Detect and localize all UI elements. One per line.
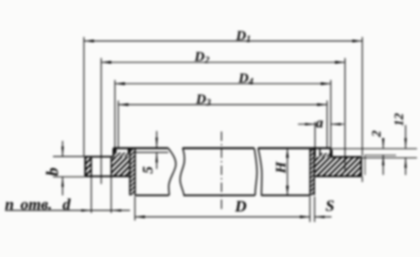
svg-text:12: 12 <box>391 113 406 127</box>
svg-text:5: 5 <box>141 166 157 174</box>
svg-text:D: D <box>234 199 247 216</box>
svg-text:D4: D4 <box>238 71 254 87</box>
svg-text:S: S <box>326 198 335 215</box>
svg-text:H: H <box>273 160 289 174</box>
svg-text:отв.: отв. <box>21 196 53 213</box>
svg-text:d: d <box>63 196 72 213</box>
svg-text:a: a <box>316 115 324 131</box>
svg-text:D1: D1 <box>235 29 251 45</box>
svg-text:2: 2 <box>369 130 384 138</box>
svg-text:b: b <box>43 168 62 177</box>
svg-text:D2: D2 <box>194 50 210 66</box>
svg-text:D3: D3 <box>195 92 211 108</box>
svg-text:n: n <box>5 196 14 213</box>
